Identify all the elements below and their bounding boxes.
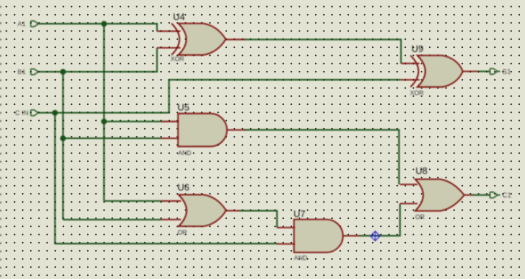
wire U6 output riser down bbox=[276, 210, 278, 228]
wire U8 output to C1 bbox=[471, 194, 490, 196]
wire A1 bus to U6 pin 1 bbox=[104, 200, 162, 202]
svg-text:AND: AND bbox=[294, 255, 308, 262]
svg-text:OR: OR bbox=[178, 229, 188, 236]
wire A1 branch to U5 pin 1 bbox=[104, 121, 162, 123]
svg-text:U6: U6 bbox=[178, 183, 190, 193]
svg-text:U8: U8 bbox=[416, 166, 428, 176]
junction B1 split bbox=[60, 69, 66, 75]
op-amp U8 OR gate bbox=[400, 179, 472, 211]
svg-text:AND: AND bbox=[178, 150, 192, 157]
svg-text:OR: OR bbox=[415, 214, 425, 221]
input terminal A1 bbox=[31, 21, 39, 27]
op-amp U5 AND gate bbox=[161, 114, 245, 147]
svg-text:U7: U7 bbox=[294, 209, 306, 219]
wire B1 riser to U4 pin 2 bbox=[156, 48, 158, 73]
wire U7 output bbox=[359, 235, 400, 237]
svg-text:A1: A1 bbox=[17, 21, 26, 28]
svg-text:XOR: XOR bbox=[171, 56, 185, 63]
wire C IN bus to U7 pin 2 bbox=[55, 243, 278, 245]
svg-text:C IN: C IN bbox=[15, 110, 29, 117]
svg-text:U9: U9 bbox=[412, 44, 424, 54]
output terminal C1 bbox=[490, 192, 498, 198]
wire C IN riser bbox=[168, 80, 170, 114]
wire A1 bus vertical bbox=[103, 24, 105, 201]
wire C IN bus vertical bbox=[54, 113, 56, 245]
svg-text:S1: S1 bbox=[502, 69, 511, 76]
svg-text:B1: B1 bbox=[17, 69, 26, 76]
wire A1 horizontal bbox=[38, 23, 158, 25]
output terminal S1 bbox=[490, 69, 498, 75]
node junction marker on U7 output bbox=[370, 231, 380, 241]
wire U5 output bbox=[244, 129, 399, 131]
op-amp U4 XOR gate bbox=[157, 23, 245, 55]
junction C IN split bbox=[52, 110, 58, 116]
wire A1 riser to U4 pin 1 bbox=[156, 23, 158, 31]
junction A1 split bbox=[101, 21, 107, 27]
svg-text:U5: U5 bbox=[178, 102, 190, 112]
op-amp U7 AND gate bbox=[277, 219, 360, 252]
wire U6 output bbox=[239, 210, 277, 212]
wire B1 horizontal bbox=[38, 71, 158, 73]
input terminal C IN bbox=[31, 110, 39, 116]
wire U4 output to U9 bbox=[244, 39, 401, 41]
svg-text:XOR: XOR bbox=[410, 90, 424, 97]
wire B1 branch to U5 pin 2 bbox=[63, 137, 162, 139]
junction B1 to U5 bbox=[60, 135, 66, 141]
wire B1 bus to U6 pin 2 bbox=[63, 219, 162, 221]
input terminal B1 bbox=[31, 69, 39, 75]
svg-text:U4: U4 bbox=[173, 12, 185, 22]
wire U7 output riser up bbox=[399, 204, 401, 237]
junction A1 to U5 bbox=[101, 119, 107, 125]
op-amp U6 OR gate bbox=[161, 195, 240, 227]
wire C IN horizontal bbox=[38, 112, 170, 114]
wire U9 output to S1 bbox=[478, 70, 490, 72]
wire U4 output riser down bbox=[400, 39, 402, 64]
wire B1 bus vertical bbox=[62, 72, 64, 220]
svg-text:C1: C1 bbox=[502, 193, 511, 200]
wire U5 output riser down bbox=[398, 129, 400, 184]
op-amp U9 XOR gate bbox=[401, 55, 478, 87]
wire C IN to U9 pin 2 bbox=[168, 79, 401, 81]
